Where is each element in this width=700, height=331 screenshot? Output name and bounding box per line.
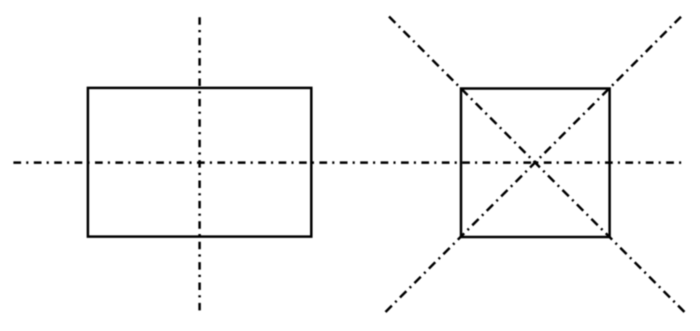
rectangle (left figure) bbox=[88, 88, 311, 237]
square (right figure) bbox=[461, 89, 610, 238]
vertical centerline of rectangle bbox=[198, 17, 201, 310]
diagonal axis A (top-left to bottom-right) bbox=[389, 17, 685, 313]
diagonal axis B (bottom-left to top-right) bbox=[386, 17, 682, 312]
horizontal centerline (shared axis) bbox=[13, 161, 682, 164]
